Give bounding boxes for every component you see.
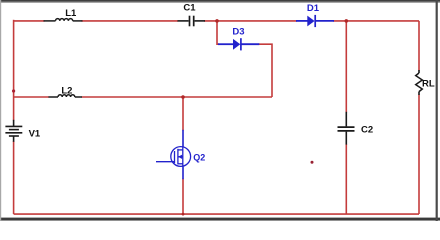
wire left vertical lower (V1 bottom lead) xyxy=(13,141,15,214)
wire C2 branch upper xyxy=(345,21,347,113)
diode D3 xyxy=(218,38,259,50)
capacitor C2 xyxy=(338,112,355,145)
wire C2 branch lower xyxy=(345,144,347,214)
svg-text:V1: V1 xyxy=(29,128,41,139)
svg-text:C1: C1 xyxy=(183,3,196,14)
internal vertical xyxy=(182,146,184,167)
wire bottom xyxy=(14,213,419,215)
inductor L2 xyxy=(49,95,83,97)
wire RL branch upper xyxy=(418,21,420,71)
Q2 source lead blue xyxy=(182,167,184,180)
MOSFET Q2 xyxy=(156,146,191,167)
Q2 drain lead blue xyxy=(182,130,184,147)
svg-text:L2: L2 xyxy=(61,86,72,97)
gate lead xyxy=(156,161,174,163)
gate bar xyxy=(174,151,176,163)
battery V1 xyxy=(5,120,22,142)
drain stub xyxy=(178,149,183,151)
wire RL branch lower xyxy=(418,95,420,215)
svg-text:D3: D3 xyxy=(232,26,244,37)
source stub xyxy=(178,163,183,165)
wire Q2 source red lower xyxy=(182,179,184,215)
junction node: top wire to C2 branch xyxy=(345,19,349,23)
border frame xyxy=(0,0,440,2)
wire top: D1 to right corner xyxy=(333,20,419,22)
inductor L1 xyxy=(44,19,83,21)
junction node: top wire to D3 branch xyxy=(215,19,219,23)
svg-text:Q2: Q2 xyxy=(193,152,205,162)
wire top: segment left of L1 xyxy=(14,20,45,22)
junction node: L2 wire to Q2 drain xyxy=(181,95,185,99)
capacitor C1 xyxy=(178,16,206,27)
junction node: left vertical near L2 tap xyxy=(12,89,15,92)
wire L2 row: L2 to D3 drop corner xyxy=(82,96,273,98)
diode D1 xyxy=(296,15,334,27)
resistor RL xyxy=(416,70,423,95)
wire left vertical upper (V1 top lead) xyxy=(13,20,15,121)
svg-text:C2: C2 xyxy=(361,125,373,136)
wire D3 branch: diode output to corner and down xyxy=(259,44,273,97)
svg-text:RL: RL xyxy=(422,78,435,89)
wire D3 branch: vertical from top wire xyxy=(217,21,219,44)
wire top: L1 to C1 xyxy=(82,20,179,22)
svg-text:D1: D1 xyxy=(307,3,320,14)
stray node dot xyxy=(311,161,314,164)
svg-text:L1: L1 xyxy=(65,8,77,19)
junction node: bottom wire at Q2 source xyxy=(182,213,185,216)
wire L2 row: left of L2 xyxy=(14,96,49,98)
wire top: C1 to D1 xyxy=(204,20,297,22)
channel bar xyxy=(177,149,179,165)
wire Q2 drain red upper xyxy=(182,97,184,131)
body stub with arrow xyxy=(178,156,183,158)
